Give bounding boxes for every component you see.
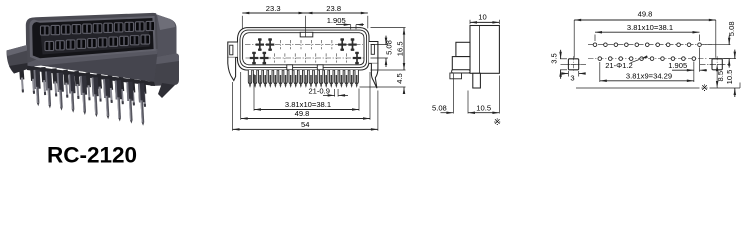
3D photo: recess floor (40, 23, 150, 55)
svg-text:23.8: 23.8 (326, 4, 341, 13)
dimension 49.8 (front body width) (240, 72, 242, 120)
pcb layout: left mounting slot 3x3.5 (568, 59, 578, 70)
3D photo: rear row of solder pins (19, 64, 25, 92)
front view: contact position tick marks (279, 40, 281, 49)
dimension 49.8 (pcb) (573, 20, 575, 58)
3D photo: front face (26, 49, 158, 82)
svg-text:54: 54 (301, 120, 309, 129)
front view: right wing solder leg (371, 63, 378, 88)
pcb layout: hole circles bottom row (10 holes) (598, 57, 602, 61)
front view: 21 solder pin comb (248, 70, 251, 84)
svg-text:16.5: 16.5 (395, 41, 404, 56)
side view: internal edge (478, 26, 480, 74)
side view: mating nose upper step (456, 42, 470, 56)
3D photo: contact slots row 1 (41, 26, 50, 35)
dimension 8.5 (slot center to edge) (716, 71, 718, 89)
pcb layout: right mounting slot (712, 59, 722, 70)
svg-text:10.5: 10.5 (476, 104, 491, 113)
dimension 23.3 (front top left) (241, 16, 243, 29)
side view: body plate (470, 26, 499, 74)
front view: bottom notch right (317, 65, 323, 70)
front view: top polarization notch (300, 32, 313, 37)
3D photo: front row of solder pins (34, 70, 42, 107)
svg-text:21-Φ1.2: 21-Φ1.2 (605, 61, 633, 70)
pcb layout: board edge line (576, 87, 700, 89)
svg-text:※: ※ (494, 117, 502, 127)
pcb layout: row centerlines (588, 44, 712, 46)
front view: left wing solder leg (228, 57, 236, 80)
dimension 5.08 (pcb row spacing) (703, 44, 730, 46)
3D photo: right end face (154, 14, 177, 60)
dimension 10 (side width) (469, 20, 471, 24)
dimension 5.08 (side, pin offset) (452, 74, 454, 114)
dimension 21-0.9 (pin width) (334, 89, 336, 97)
dimension 3.81x9=34.29 (pcb) (599, 62, 601, 82)
front view: bottom notch left (287, 65, 293, 70)
svg-text:8.5: 8.5 (716, 71, 725, 82)
3D photo: left mounting tab (7, 45, 28, 74)
svg-text:10: 10 (478, 13, 486, 22)
side view: contact pin (452, 70, 470, 73)
svg-text:23.3: 23.3 (266, 4, 281, 13)
svg-text:3.81x9=34.29: 3.81x9=34.29 (626, 71, 672, 80)
side view: nose bottom lip (450, 73, 462, 79)
svg-text:※: ※ (701, 83, 709, 93)
front view: contact row centerlines (245, 44, 363, 46)
svg-text:5.08: 5.08 (727, 21, 736, 36)
dimension 5.08 (front row pitch, right) (371, 44, 389, 46)
front view: left mounting wing (228, 42, 238, 57)
svg-text:3.5: 3.5 (550, 53, 559, 64)
dimension 1.905 (front top) (350, 25, 352, 30)
dimension 23.8 (front top right) (306, 12, 368, 14)
3D photo: shell rim (29, 16, 155, 61)
dimension 3 (slot width) (567, 71, 569, 77)
front view: detailed contacts bottom row (pins 1,3,21) (250, 52, 258, 65)
3D photo: right mounting block (151, 53, 180, 86)
pcb layout: slot axis centerline (561, 63, 587, 65)
dimension 3.81x10=38.1 (front) (253, 74, 255, 111)
dimension 10.5 (row to edge) (724, 58, 737, 60)
svg-text:4.5: 4.5 (395, 73, 404, 84)
3D photo: recess opening (32, 18, 153, 58)
front view: recess wall (243, 33, 364, 65)
svg-text:1.905: 1.905 (668, 61, 687, 70)
dimension 16.5 (front height, right) (371, 27, 406, 29)
svg-text:3: 3 (570, 74, 574, 83)
side view: solder leg (473, 73, 481, 88)
svg-text:RC-2120: RC-2120 (47, 143, 137, 168)
3D photo: connector body (26, 13, 158, 82)
front view: right mounting wing (369, 42, 378, 64)
front view: detailed contacts top row (pins 2,4,18,20) (256, 38, 264, 51)
front view: shell inner line (240, 30, 367, 67)
svg-text:1.905: 1.905 (327, 16, 346, 25)
svg-text:21-0.9: 21-0.9 (308, 87, 330, 96)
svg-text:5.08: 5.08 (432, 104, 447, 113)
dimension 3.81x10=38.1 (pcb) (594, 35, 596, 42)
svg-text:49.8: 49.8 (638, 10, 653, 19)
dimension 3.5 (slot height) (560, 58, 567, 60)
pcb layout: hole circles top row (11 holes) (593, 43, 597, 47)
front view: outer shell outline (238, 28, 370, 70)
dimension 4.5 (pin length, right) (360, 86, 406, 88)
dimension 54 (front overall width) (232, 82, 234, 131)
svg-text:5.08: 5.08 (385, 40, 394, 55)
svg-text:3.81x10=38.1: 3.81x10=38.1 (285, 100, 331, 109)
3D photo: contact slots row 2 (45, 41, 54, 50)
svg-text:3.81x10=38.1: 3.81x10=38.1 (627, 23, 673, 32)
svg-text:49.8: 49.8 (295, 109, 310, 118)
dimension 10.5 (side depth) (498, 76, 500, 114)
side view: mating nose lower step (452, 57, 470, 70)
svg-text:10.5: 10.5 (725, 70, 734, 85)
dimension 1.905 (pcb stagger) (693, 62, 695, 83)
